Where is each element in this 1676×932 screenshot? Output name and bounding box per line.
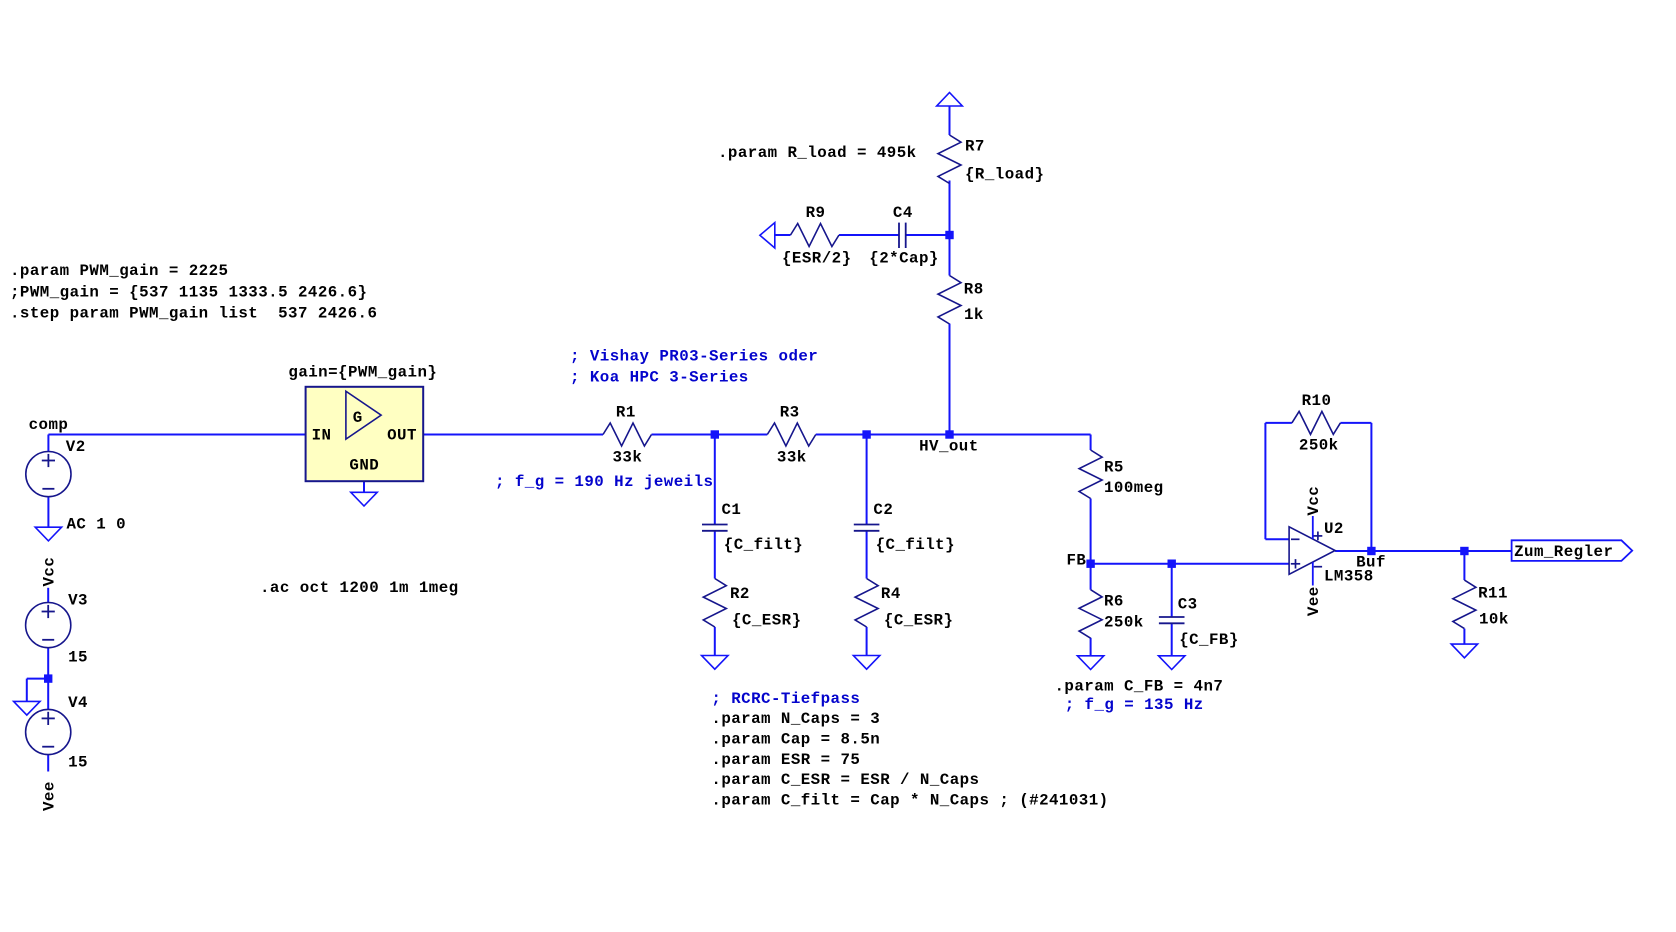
svg-text:IN: IN [312, 426, 332, 444]
svg-text:Zum_Regler: Zum_Regler [1514, 543, 1613, 561]
svg-text:G: G [353, 409, 363, 427]
svg-text:15: 15 [68, 649, 88, 667]
svg-text:33k: 33k [613, 449, 643, 467]
svg-text:.param N_Caps = 3: .param N_Caps = 3 [711, 710, 880, 728]
svg-text:{C_ESR}: {C_ESR} [884, 611, 954, 629]
svg-text:C2: C2 [873, 501, 893, 519]
svg-text:C3: C3 [1178, 596, 1198, 614]
svg-text:{C_filt}: {C_filt} [724, 536, 803, 554]
svg-text:Vee: Vee [1305, 586, 1323, 616]
svg-text:;PWM_gain = {537 1135 1333.5 2: ;PWM_gain = {537 1135 1333.5 2426.6} [10, 283, 367, 301]
svg-text:; f_g = 190 Hz jeweils: ; f_g = 190 Hz jeweils [495, 473, 713, 491]
svg-text:{C_filt}: {C_filt} [876, 536, 955, 554]
svg-text:R8: R8 [964, 281, 984, 299]
svg-text:Vcc: Vcc [41, 557, 59, 587]
svg-text:.ac oct 1200 1m 1meg: .ac oct 1200 1m 1meg [260, 579, 459, 597]
svg-text:250k: 250k [1299, 437, 1339, 455]
svg-text:R3: R3 [780, 404, 800, 422]
svg-text:Vcc: Vcc [1305, 486, 1323, 516]
svg-text:10k: 10k [1479, 611, 1509, 629]
svg-text:R1: R1 [616, 404, 636, 422]
svg-text:V3: V3 [68, 592, 88, 610]
svg-text:AC 1 0: AC 1 0 [67, 515, 127, 533]
svg-text:R10: R10 [1302, 392, 1332, 410]
svg-text:{C_ESR}: {C_ESR} [732, 611, 802, 629]
svg-text:33k: 33k [777, 449, 807, 467]
svg-text:{2*Cap}: {2*Cap} [869, 249, 939, 267]
svg-text:C4: C4 [893, 204, 913, 222]
svg-text:15: 15 [68, 754, 88, 772]
svg-text:250k: 250k [1104, 614, 1144, 632]
svg-text:.param C_filt = Cap * N_Caps ;: .param C_filt = Cap * N_Caps ; (#241031) [711, 792, 1108, 810]
svg-text:{C_FB}: {C_FB} [1179, 631, 1239, 649]
svg-text:.param PWM_gain = 2225: .param PWM_gain = 2225 [10, 262, 228, 280]
svg-text:R2: R2 [730, 585, 750, 603]
svg-text:{R_load}: {R_load} [965, 166, 1044, 184]
svg-text:100meg: 100meg [1104, 479, 1164, 497]
svg-text:.param C_ESR = ESR / N_Caps: .param C_ESR = ESR / N_Caps [711, 771, 979, 789]
svg-text:gain={PWM_gain}: gain={PWM_gain} [288, 364, 437, 382]
svg-text:Vee: Vee [41, 781, 59, 811]
svg-text:{ESR/2}: {ESR/2} [782, 249, 852, 267]
svg-text:R7: R7 [965, 138, 985, 156]
svg-text:V4: V4 [68, 694, 88, 712]
svg-text:R5: R5 [1104, 459, 1124, 477]
svg-text:LM358: LM358 [1324, 568, 1374, 586]
svg-text:R4: R4 [881, 585, 901, 603]
svg-text:.param Cap = 8.5n: .param Cap = 8.5n [711, 731, 880, 749]
svg-text:; Vishay PR03-Series oder: ; Vishay PR03-Series oder [570, 348, 818, 366]
svg-text:FB: FB [1067, 552, 1087, 570]
svg-text:; f_g = 135 Hz: ; f_g = 135 Hz [1065, 696, 1204, 714]
svg-text:.param C_FB = 4n7: .param C_FB = 4n7 [1055, 678, 1224, 696]
svg-text:; RCRC-Tiefpass: ; RCRC-Tiefpass [711, 690, 860, 708]
svg-text:1k: 1k [964, 306, 984, 324]
svg-text:U2: U2 [1324, 520, 1344, 538]
svg-text:GND: GND [349, 456, 379, 474]
svg-text:.param ESR = 75: .param ESR = 75 [711, 751, 860, 769]
svg-text:; Koa HPC 3-Series: ; Koa HPC 3-Series [570, 369, 749, 387]
svg-text:R9: R9 [806, 204, 826, 222]
svg-text:R6: R6 [1104, 593, 1124, 611]
svg-text:.step param PWM_gain list 537: .step param PWM_gain list 537 2426.6 [10, 305, 377, 323]
svg-text:R11: R11 [1478, 585, 1508, 603]
svg-text:C1: C1 [722, 501, 742, 519]
svg-text:.param R_load = 495k: .param R_load = 495k [718, 144, 917, 162]
svg-text:comp: comp [29, 416, 69, 434]
svg-text:HV_out: HV_out [919, 438, 979, 456]
svg-text:V2: V2 [66, 438, 86, 456]
svg-text:OUT: OUT [387, 426, 417, 444]
